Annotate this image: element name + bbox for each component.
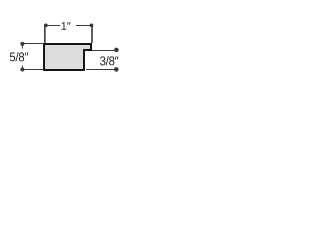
5/8in bottom dot <box>20 68 24 72</box>
1in dimension line left segment <box>48 25 61 27</box>
moulding profile cross-section <box>44 44 91 70</box>
1in dimension line right segment <box>76 25 90 27</box>
5/8in shaft upper <box>21 44 23 49</box>
label 1 inch <box>62 22 71 30</box>
1in left dot terminator <box>44 24 48 28</box>
1in right extension line <box>91 27 93 44</box>
5/8in top dot <box>20 42 24 46</box>
label 5/8 inch <box>10 52 28 61</box>
5/8in shaft lower <box>21 66 23 70</box>
1in left extension line <box>44 27 46 44</box>
3/8in top dot <box>114 48 119 53</box>
5/8in bottom tick <box>24 69 44 71</box>
label 3/8 inch <box>100 56 118 65</box>
3/8in bottom dot <box>114 67 119 72</box>
3/8in bottom leader <box>86 69 115 71</box>
1in right dot terminator <box>90 24 94 28</box>
5/8in top tick <box>24 43 44 45</box>
3/8in top leader <box>92 50 115 52</box>
